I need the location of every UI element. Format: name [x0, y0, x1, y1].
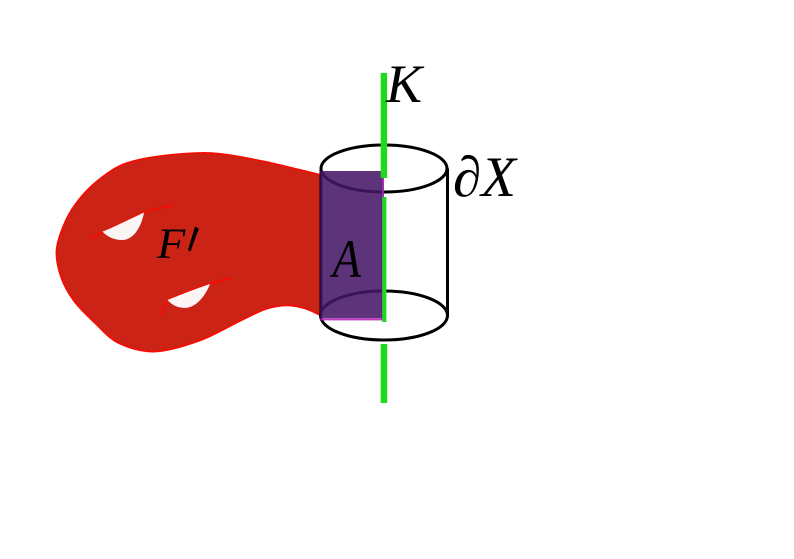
svg-text:K: K [385, 54, 425, 114]
svg-text:F: F [156, 220, 186, 268]
svg-text:∂X: ∂X [453, 146, 518, 209]
svg-text:A: A [330, 229, 361, 289]
